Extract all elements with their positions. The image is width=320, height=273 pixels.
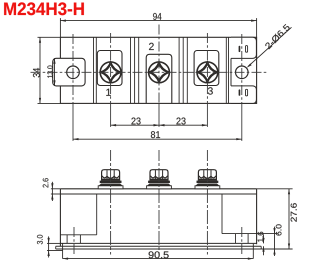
dimension line 94 (60, 20, 256, 22)
dimension 23 left line (111, 124, 159, 126)
terminal 3 cross recess star (197, 62, 217, 82)
dimension text 6.0 (276, 224, 282, 235)
front view right ear ledge (222, 233, 257, 235)
terminal 3 pocket (194, 51, 219, 86)
dimension text 81 (151, 131, 160, 138)
dimension text 1.6 (258, 232, 264, 242)
terminal 3 screw head circle (197, 62, 218, 83)
dimension text 90.5 (149, 251, 169, 258)
front view left ear ledge (60, 234, 96, 236)
front centerline left mounting hole (73, 227, 75, 255)
dimension 6.0 line (274, 227, 276, 256)
baseplate left side (55, 246, 57, 249)
terminal 1 screw head circle (100, 62, 121, 83)
dimension 23 right line (159, 124, 207, 126)
dimension text 34 (33, 68, 40, 77)
baseplate mid line (56, 245, 262, 247)
right end top lobe (231, 37, 256, 58)
hole callout leader 2-d6.5 (248, 27, 292, 66)
dimension line 34 (39, 37, 41, 103)
separation lines right end (225, 37, 227, 103)
front view right edge (256, 189, 258, 244)
baseplate bottom line (56, 248, 262, 250)
front view terminal 2 nut (147, 170, 172, 189)
slots in top lobe (239, 46, 241, 52)
module body outline (top view) (60, 37, 256, 103)
front centerline terminal 3 (206, 150, 208, 255)
dimension line 90.5 (63, 258, 254, 260)
left ear hole hidden lines (66, 235, 68, 244)
vertical centerline terminal 3 (206, 33, 208, 103)
front view terminal 3 nut (195, 170, 220, 189)
dimension text 3.0 (37, 235, 43, 244)
terminal label 2 (149, 43, 154, 50)
terminal 2 screw head circle (149, 62, 170, 83)
separation lines left end (93, 37, 95, 103)
left mounting hole (67, 66, 80, 79)
terminal label 3 (208, 87, 213, 94)
vertical centerline left hole (72, 34, 74, 103)
dimension 3.0 extension lines (47, 242, 60, 244)
left mounting tab (53, 58, 85, 86)
vertical centerline terminal 2 (158, 25, 160, 104)
hole callout text 2-d6.5 (264, 24, 290, 50)
terminal 2 pocket (146, 54, 172, 103)
front view terminal 1 nut (98, 170, 123, 189)
terminal label 1 (106, 89, 110, 96)
baseplate right side (260, 246, 262, 249)
dimension 27.6 extension lines (257, 188, 293, 190)
right end notch wall (230, 58, 232, 86)
horizontal centerline (top view) (31, 71, 269, 73)
front centerline right mounting hole (241, 227, 243, 255)
separation lines between terminal 1 and 2 (130, 37, 132, 103)
front centerline terminal 2 (158, 150, 160, 255)
front view lid step line (60, 193, 256, 195)
right end bottom lobe (231, 86, 256, 104)
dimension 34 extension lines (38, 36, 61, 38)
terminal 2 cross recess star (149, 62, 169, 82)
baseplate top line (60, 242, 256, 244)
dimension 2.6 extension lines (51, 188, 61, 190)
dimension 13.0 line (54, 58, 56, 86)
dimension text 2.6 (43, 178, 49, 187)
vertical centerline right hole (241, 34, 243, 103)
front centerline terminal 1 (110, 150, 112, 255)
terminal 1 cross recess star (101, 62, 121, 82)
dimension text 27.6 (291, 203, 297, 222)
right mounting hole (236, 66, 249, 79)
front view left edge (59, 189, 61, 247)
dimension text 23 right (176, 118, 185, 125)
front view right inner wall (221, 194, 223, 234)
dimension line 27.6 (288, 189, 290, 249)
vertical centerline terminal 1 (110, 33, 112, 103)
front view left inner wall (96, 194, 98, 235)
dimension 2.6 line (51, 182, 53, 201)
dimension 6.0 extension line (257, 233, 278, 235)
dimension 3.0 line (48, 236, 50, 257)
separation lines between terminal 2 and 3 (178, 37, 180, 103)
dimension 1.6 arrows (263, 234, 265, 243)
terminal 1 pocket (97, 51, 122, 86)
dimension 94 extension lines (59, 18, 61, 37)
dimension text 23 left (131, 118, 140, 125)
slots in bottom lobe (239, 89, 241, 95)
right ear hole hidden lines (235, 234, 237, 244)
dimension line 81 (73, 138, 242, 140)
dimension 90.5 extension lines (62, 243, 64, 258)
dimension text 94 (153, 13, 161, 20)
dimension text 13.0 (47, 66, 52, 78)
front view lid top line (60, 188, 256, 190)
title text M234H3-H (4, 2, 84, 15)
